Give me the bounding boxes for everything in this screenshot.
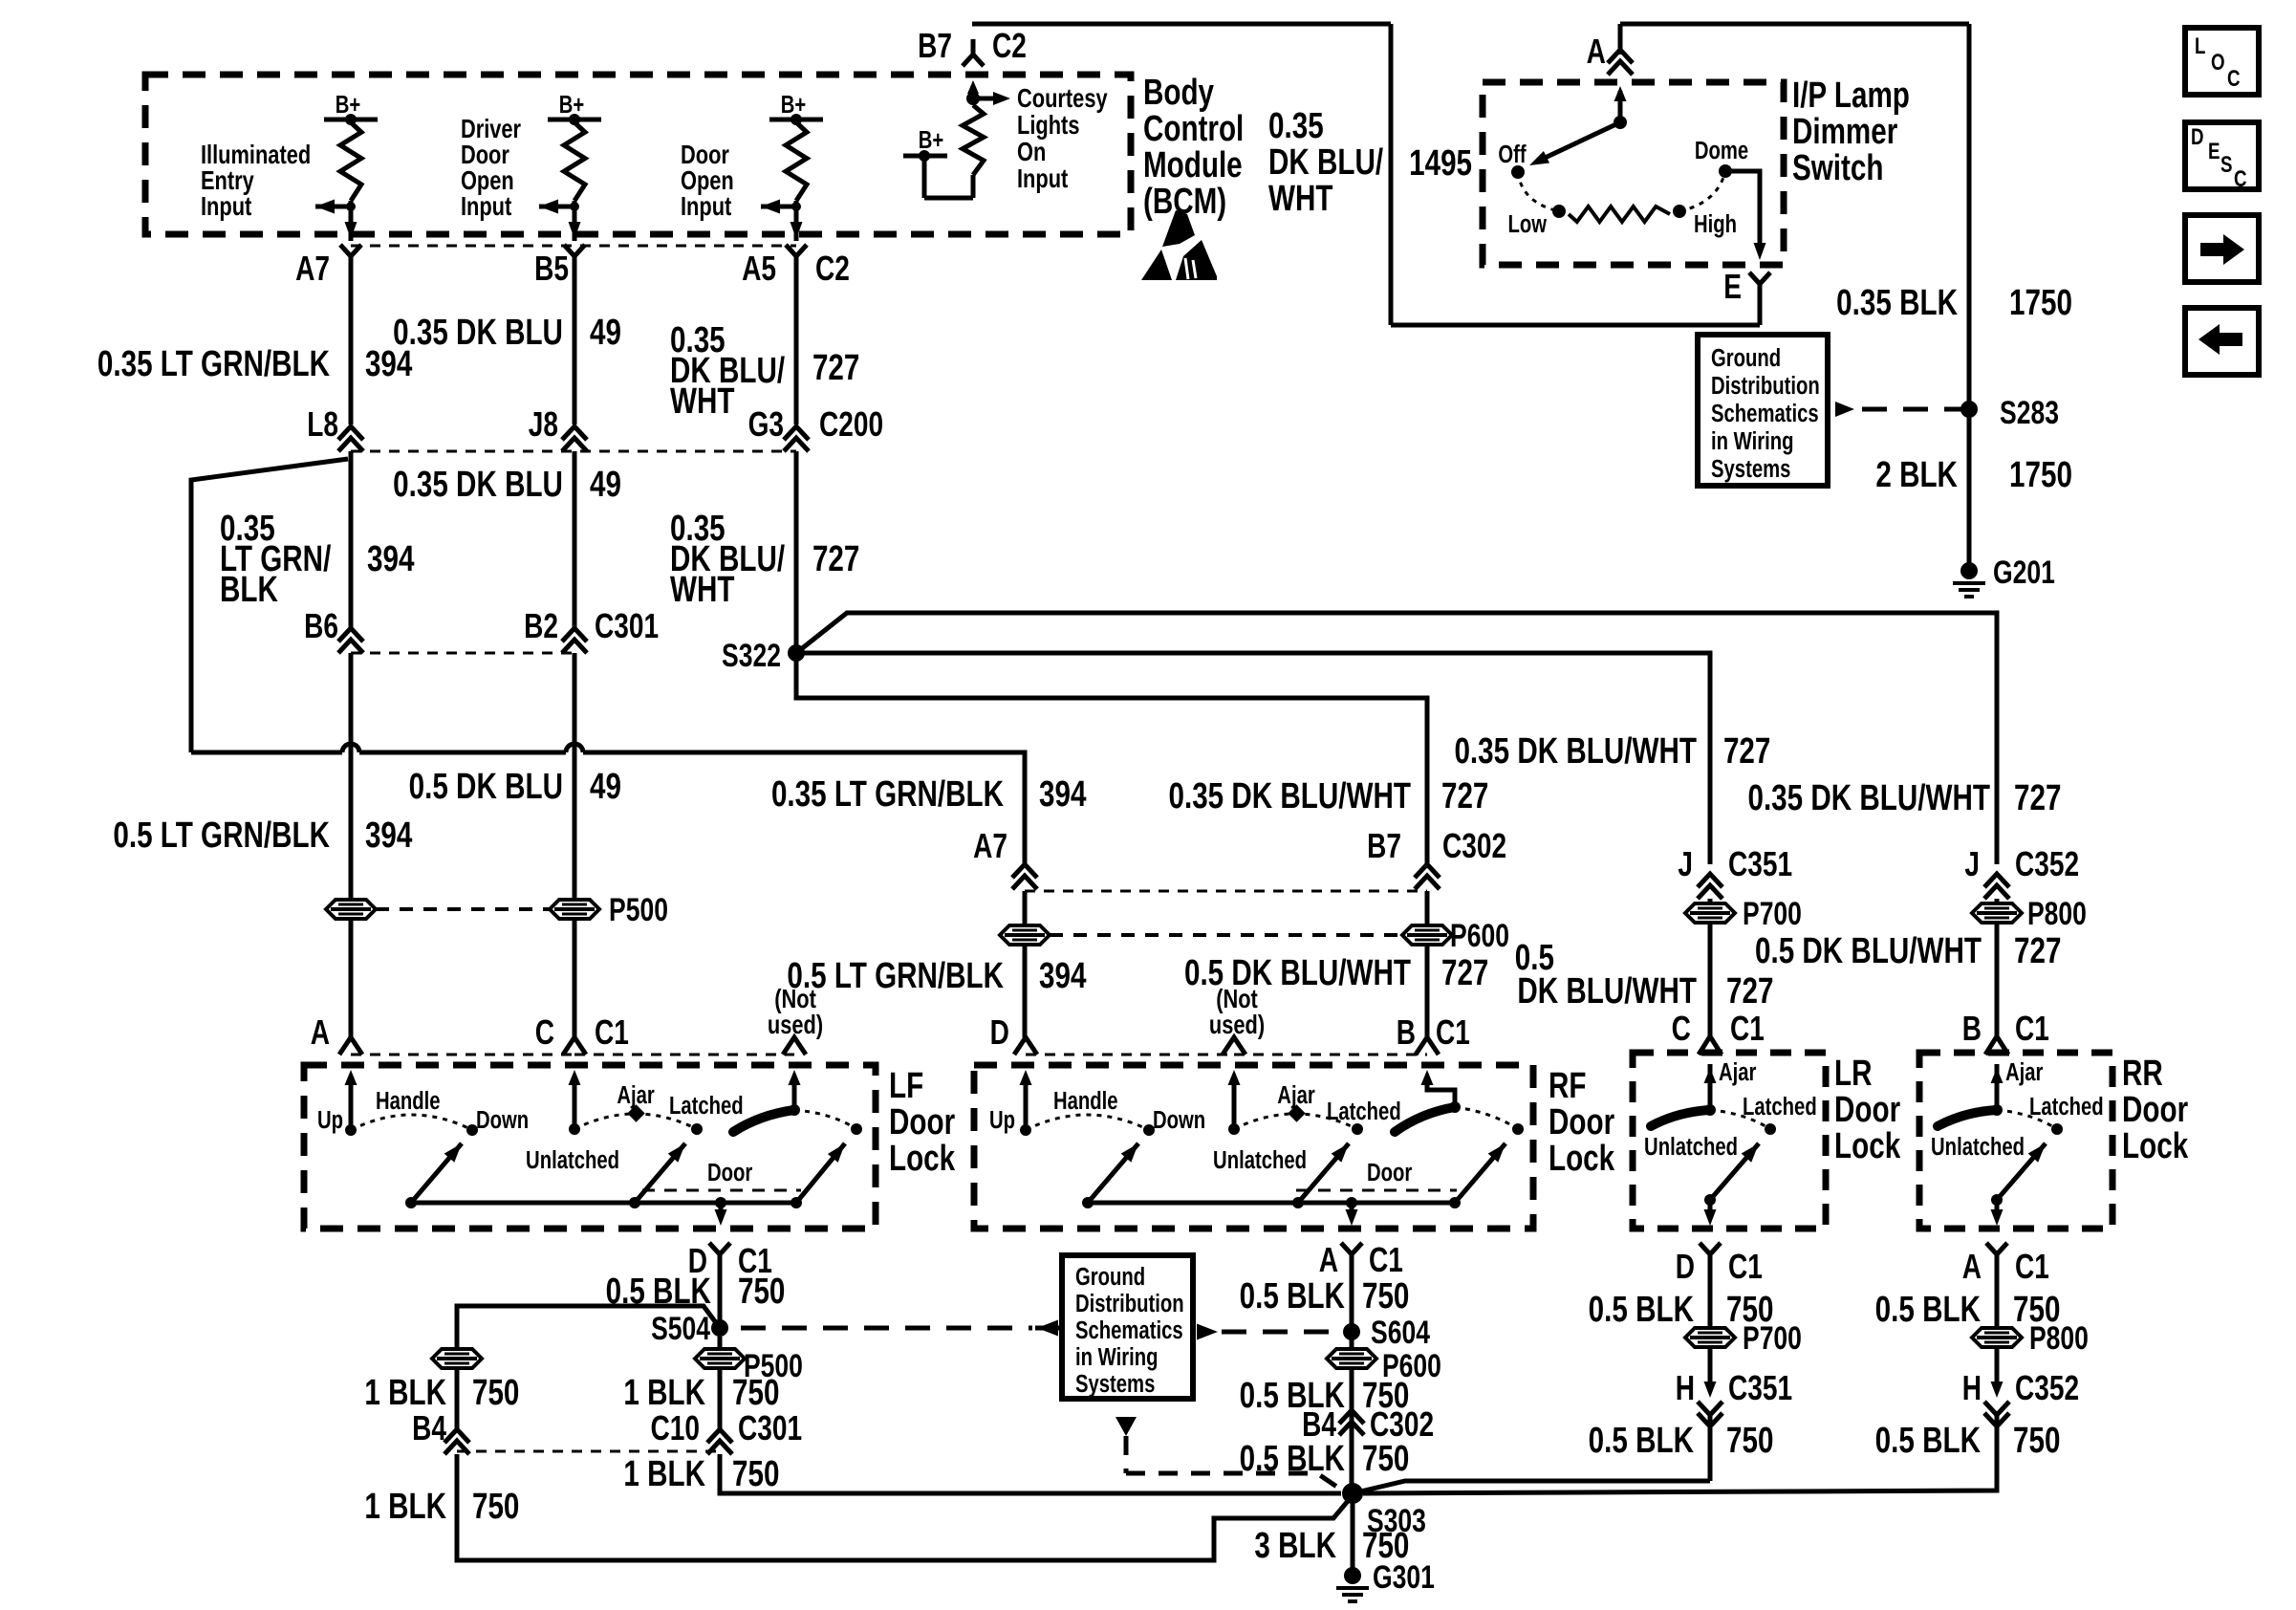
svg-text:Module: Module: [1143, 145, 1243, 185]
svg-text:Ajar: Ajar: [2005, 1058, 2043, 1086]
svg-text:P800: P800: [2029, 1320, 2089, 1357]
svg-text:Off: Off: [1498, 141, 1526, 168]
svg-text:G201: G201: [1993, 555, 2055, 591]
svg-text:C352: C352: [2015, 845, 2079, 883]
svg-text:Latched: Latched: [669, 1092, 744, 1120]
svg-text:E: E: [1723, 268, 1742, 306]
svg-text:B2: B2: [524, 607, 558, 645]
svg-text:Unlatched: Unlatched: [1931, 1133, 2025, 1161]
svg-text:Lock: Lock: [889, 1139, 955, 1179]
svg-text:0.35 BLK: 0.35 BLK: [1836, 283, 1958, 323]
svg-text:Unlatched: Unlatched: [526, 1146, 619, 1174]
svg-text:J: J: [1964, 845, 1980, 883]
svg-text:Latched: Latched: [1327, 1098, 1401, 1125]
svg-text:B+: B+: [336, 91, 360, 119]
svg-text:0.5 LT GRN/BLK: 0.5 LT GRN/BLK: [787, 956, 1004, 996]
svg-text:0.5 BLK: 0.5 BLK: [1875, 1421, 1982, 1461]
svg-text:Lights: Lights: [1017, 110, 1079, 140]
svg-text:1 BLK: 1 BLK: [623, 1373, 705, 1413]
svg-text:C301: C301: [595, 607, 659, 645]
svg-text:used): used): [1209, 1010, 1265, 1039]
svg-text:Courtesy: Courtesy: [1017, 83, 1108, 113]
svg-text:727: 727: [1723, 731, 1770, 772]
svg-text:D: D: [990, 1013, 1009, 1052]
svg-text:Systems: Systems: [1075, 1370, 1155, 1398]
svg-text:Ajar: Ajar: [1277, 1081, 1314, 1109]
svg-text:G301: G301: [1373, 1559, 1435, 1596]
svg-text:P500: P500: [609, 892, 668, 928]
svg-text:DK BLU/WHT: DK BLU/WHT: [1517, 971, 1697, 1012]
svg-text:750: 750: [1726, 1421, 1773, 1461]
svg-text:P700: P700: [1743, 896, 1802, 932]
svg-text:H: H: [1676, 1369, 1695, 1407]
svg-text:1 BLK: 1 BLK: [364, 1487, 446, 1527]
svg-text:C2: C2: [815, 250, 850, 288]
svg-text:1 BLK: 1 BLK: [623, 1454, 705, 1494]
svg-text:B7: B7: [918, 27, 952, 65]
svg-text:Lock: Lock: [2122, 1126, 2188, 1166]
svg-text:Unlatched: Unlatched: [1213, 1146, 1307, 1174]
svg-text:B+: B+: [919, 126, 943, 154]
svg-text:LF: LF: [889, 1066, 923, 1106]
svg-text:L: L: [2195, 33, 2205, 59]
svg-text:D: D: [2191, 124, 2204, 150]
svg-text:Door: Door: [1834, 1090, 1900, 1130]
svg-text:3 BLK: 3 BLK: [1254, 1526, 1336, 1566]
svg-text:RF: RF: [1549, 1066, 1586, 1106]
svg-text:B: B: [1962, 1010, 1982, 1048]
svg-text:394: 394: [365, 344, 412, 384]
svg-text:High: High: [1694, 210, 1737, 238]
svg-text:727: 727: [812, 348, 859, 388]
svg-text:H: H: [1962, 1369, 1982, 1407]
svg-text:0.35: 0.35: [1268, 106, 1324, 146]
svg-text:Input: Input: [681, 191, 732, 221]
svg-text:727: 727: [2014, 931, 2061, 971]
svg-text:0.35 DK BLU/WHT: 0.35 DK BLU/WHT: [1747, 778, 1990, 818]
svg-text:WHT: WHT: [670, 570, 735, 610]
svg-text:0.5 BLK: 0.5 BLK: [1589, 1290, 1695, 1330]
svg-text:Switch: Switch: [1792, 148, 1883, 188]
svg-text:S604: S604: [1371, 1315, 1430, 1351]
svg-text:Up: Up: [989, 1106, 1015, 1134]
svg-text:L8: L8: [307, 405, 338, 444]
svg-text:0.5 BLK: 0.5 BLK: [1589, 1421, 1695, 1461]
svg-text:Body: Body: [1143, 73, 1214, 113]
svg-text:C200: C200: [819, 405, 883, 444]
svg-text:1750: 1750: [2009, 455, 2072, 495]
svg-text:S504: S504: [651, 1311, 710, 1347]
svg-text:Input: Input: [201, 191, 252, 221]
svg-text:0.35 LT GRN/BLK: 0.35 LT GRN/BLK: [97, 344, 330, 384]
svg-text:A7: A7: [973, 827, 1007, 865]
svg-text:LR: LR: [1834, 1054, 1872, 1094]
svg-text:394: 394: [367, 539, 414, 579]
svg-text:Input: Input: [461, 191, 512, 221]
svg-text:C1: C1: [1728, 1248, 1763, 1286]
svg-text:Handle: Handle: [1053, 1087, 1118, 1115]
svg-text:C1: C1: [1730, 1010, 1765, 1048]
svg-text:C1: C1: [595, 1013, 629, 1052]
svg-text:C: C: [535, 1013, 554, 1052]
svg-text:Door: Door: [889, 1102, 955, 1142]
svg-text:0.5 DK BLU/WHT: 0.5 DK BLU/WHT: [1755, 931, 1982, 971]
svg-text:49: 49: [590, 313, 621, 353]
svg-text:A: A: [1962, 1248, 1982, 1286]
svg-text:0.5 LT GRN/BLK: 0.5 LT GRN/BLK: [113, 816, 330, 856]
svg-text:Dome: Dome: [1695, 137, 1748, 164]
svg-text:RR: RR: [2122, 1054, 2163, 1094]
svg-text:A: A: [1587, 33, 1606, 71]
svg-text:Unlatched: Unlatched: [1644, 1133, 1738, 1161]
svg-text:A7: A7: [295, 250, 330, 288]
svg-text:BLK: BLK: [220, 570, 278, 610]
svg-text:Latched: Latched: [2029, 1093, 2104, 1120]
svg-text:Input: Input: [1017, 163, 1069, 193]
svg-text:0.35 DK BLU: 0.35 DK BLU: [393, 465, 563, 505]
svg-text:394: 394: [365, 816, 412, 856]
svg-text:1750: 1750: [2009, 283, 2072, 323]
svg-text:727: 727: [1441, 953, 1488, 993]
svg-text:C352: C352: [2015, 1369, 2079, 1407]
svg-text:Systems: Systems: [1711, 455, 1790, 483]
svg-text:Handle: Handle: [376, 1087, 441, 1115]
svg-text:On: On: [1017, 137, 1046, 166]
svg-text:C1: C1: [1369, 1241, 1403, 1279]
svg-text:394: 394: [1039, 774, 1086, 815]
svg-text:B+: B+: [781, 91, 806, 119]
svg-text:394: 394: [1039, 956, 1086, 996]
svg-text:Schematics: Schematics: [1075, 1316, 1183, 1344]
svg-text:1 BLK: 1 BLK: [364, 1373, 446, 1413]
svg-text:Lock: Lock: [1549, 1139, 1614, 1179]
svg-text:Door: Door: [1367, 1159, 1412, 1186]
svg-text:C1: C1: [2015, 1248, 2049, 1286]
svg-text:0.35 LT GRN/BLK: 0.35 LT GRN/BLK: [771, 774, 1004, 815]
svg-text:C351: C351: [1728, 1369, 1792, 1407]
svg-text:Dimmer: Dimmer: [1792, 112, 1897, 152]
svg-text:C1: C1: [1436, 1013, 1470, 1052]
svg-text:750: 750: [732, 1454, 779, 1494]
svg-text:2 BLK: 2 BLK: [1875, 455, 1958, 495]
svg-text:0.5 BLK: 0.5 BLK: [1875, 1290, 1982, 1330]
svg-text:P600: P600: [1450, 918, 1509, 954]
svg-text:C: C: [2227, 66, 2241, 92]
svg-text:Door: Door: [707, 1159, 752, 1186]
svg-text:P700: P700: [1743, 1320, 1802, 1357]
svg-text:Control: Control: [1143, 109, 1244, 149]
svg-text:0.35 DK BLU/WHT: 0.35 DK BLU/WHT: [1454, 731, 1697, 772]
svg-text:J8: J8: [529, 405, 558, 444]
svg-text:DK BLU/: DK BLU/: [1268, 142, 1384, 183]
svg-text:Ajar: Ajar: [1719, 1058, 1756, 1086]
svg-text:A: A: [1319, 1241, 1338, 1279]
svg-text:Latched: Latched: [1743, 1093, 1817, 1120]
svg-text:O: O: [2211, 50, 2225, 76]
svg-text:Ground: Ground: [1711, 344, 1781, 372]
svg-text:750: 750: [738, 1272, 785, 1312]
svg-text:Low: Low: [1508, 210, 1548, 238]
svg-text:750: 750: [1362, 1276, 1409, 1316]
svg-text:750: 750: [2013, 1421, 2060, 1461]
svg-text:0.35 DK BLU/WHT: 0.35 DK BLU/WHT: [1168, 776, 1411, 816]
svg-text:G3: G3: [748, 405, 784, 444]
svg-text:I/P Lamp: I/P Lamp: [1792, 76, 1910, 116]
svg-text:49: 49: [590, 767, 621, 807]
svg-text:C2: C2: [992, 27, 1027, 65]
svg-text:C: C: [1672, 1010, 1691, 1048]
svg-text:B4: B4: [412, 1409, 446, 1447]
svg-text:C: C: [2234, 166, 2247, 192]
svg-text:Door: Door: [1549, 1102, 1614, 1142]
svg-text:Distribution: Distribution: [1075, 1290, 1184, 1317]
svg-text:in Wiring: in Wiring: [1711, 427, 1793, 455]
svg-text:727: 727: [1726, 971, 1773, 1012]
svg-text:WHT: WHT: [1268, 179, 1333, 219]
svg-text:Schematics: Schematics: [1711, 400, 1819, 427]
svg-text:B+: B+: [559, 91, 584, 119]
svg-text:C301: C301: [738, 1409, 802, 1447]
svg-text:S322: S322: [722, 638, 781, 674]
svg-text:Door: Door: [2122, 1090, 2188, 1130]
svg-text:0.5 DK BLU: 0.5 DK BLU: [409, 767, 563, 807]
svg-text:B: B: [1397, 1013, 1416, 1052]
svg-text:B6: B6: [304, 607, 338, 645]
svg-text:in Wiring: in Wiring: [1075, 1343, 1158, 1371]
svg-text:727: 727: [812, 539, 859, 579]
svg-text:C302: C302: [1442, 827, 1506, 865]
svg-text:P800: P800: [2027, 896, 2087, 932]
svg-text:Ajar: Ajar: [617, 1081, 654, 1109]
svg-text:J: J: [1678, 845, 1693, 883]
svg-text:S283: S283: [2000, 395, 2059, 431]
svg-text:750: 750: [732, 1373, 779, 1413]
svg-text:727: 727: [2014, 778, 2061, 818]
svg-text:Up: Up: [317, 1106, 343, 1134]
svg-text:750: 750: [472, 1487, 519, 1527]
svg-text:A5: A5: [742, 250, 776, 288]
svg-text:0.5 BLK: 0.5 BLK: [1240, 1276, 1346, 1316]
svg-text:used): used): [768, 1010, 823, 1039]
svg-text:B5: B5: [534, 250, 569, 288]
svg-text:B7: B7: [1367, 827, 1401, 865]
svg-text:E: E: [2208, 139, 2220, 164]
svg-text:Down: Down: [1153, 1106, 1205, 1134]
svg-text:Lock: Lock: [1834, 1126, 1900, 1166]
svg-text:750: 750: [1362, 1439, 1409, 1479]
svg-text:Ground: Ground: [1075, 1263, 1145, 1291]
svg-text:750: 750: [472, 1373, 519, 1413]
svg-text:A: A: [311, 1013, 330, 1052]
svg-text:C1: C1: [2015, 1010, 2049, 1048]
svg-text:WHT: WHT: [670, 381, 735, 422]
svg-text:1495: 1495: [1409, 143, 1472, 184]
svg-text:49: 49: [590, 465, 621, 505]
svg-text:C351: C351: [1728, 845, 1792, 883]
svg-text:C10: C10: [651, 1409, 700, 1447]
svg-text:727: 727: [1441, 776, 1488, 816]
svg-text:S: S: [2220, 152, 2232, 178]
svg-text:(BCM): (BCM): [1143, 182, 1226, 222]
svg-text:D: D: [1676, 1248, 1695, 1286]
svg-text:Down: Down: [476, 1106, 529, 1134]
svg-text:0.35 DK BLU: 0.35 DK BLU: [393, 313, 563, 353]
svg-text:Distribution: Distribution: [1711, 372, 1820, 400]
